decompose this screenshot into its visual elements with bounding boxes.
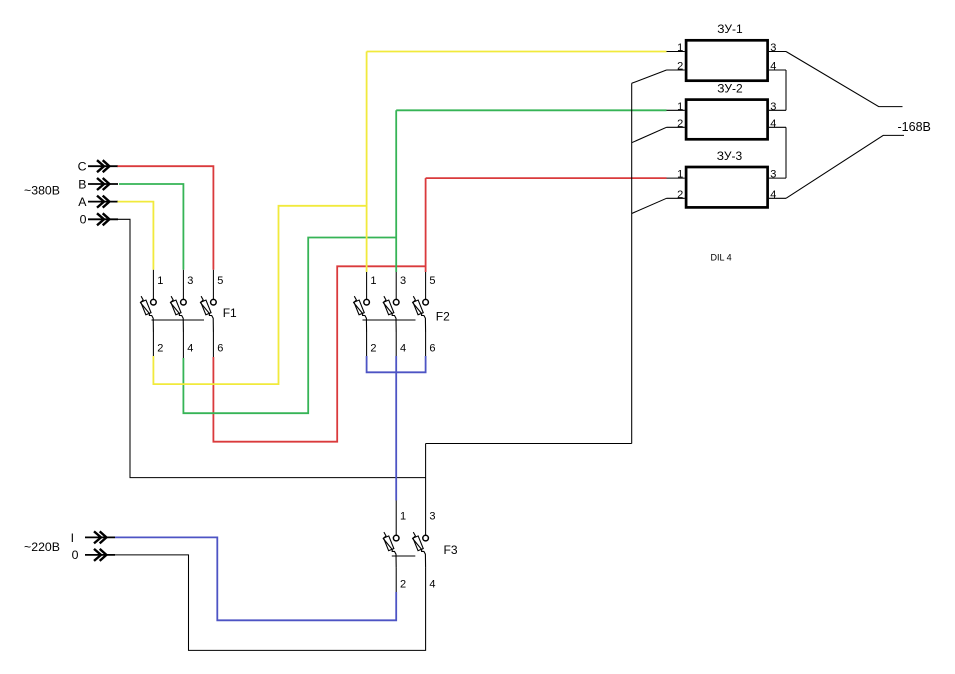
wire phase B green: input B to F1 pin 3: [119, 184, 183, 270]
svg-text:C: C: [78, 160, 87, 174]
charger unit ZU-3: [686, 167, 768, 207]
svg-text:F1: F1: [223, 306, 237, 320]
wire phase C red: input C to F1 pin 5: [118, 166, 214, 270]
wire F2 pin 1 top (black): [366, 272, 368, 299]
wire neutral: vertical riser to ZU pins 2: [631, 83, 633, 443]
connector arrow B: [88, 178, 118, 190]
wire phase A yellow: input A to F1 pin 1: [118, 202, 154, 270]
wire neutral diagonal to ZU-3 pin 2: [632, 198, 667, 213]
svg-text:1: 1: [400, 511, 406, 523]
connector arrow 0: [88, 213, 118, 225]
wire F1 pin 3 top (black): [182, 270, 184, 300]
svg-text:3: 3: [187, 275, 193, 287]
wire F2 pin 6 bottom (black): [425, 332, 427, 356]
connector arrow I: [85, 531, 115, 543]
svg-text:~220В: ~220В: [24, 540, 60, 554]
wire 220V neutral black: input 0 to F3 pin 4: [112, 555, 426, 651]
wire F1 pin 2 bottom (black): [152, 332, 154, 356]
wire stub ZU-1 pin 2: [667, 69, 685, 71]
svg-text:2: 2: [157, 343, 163, 355]
wire series link ZU-1 pin 4 to ZU-2 pin 3: [785, 70, 787, 110]
svg-text:2: 2: [677, 118, 683, 130]
wire stub ZU-3 pin 3: [769, 177, 786, 179]
wire F2 pin 2 bottom (black): [366, 332, 368, 356]
svg-text:1: 1: [677, 42, 683, 54]
wire F1 pin 5 top (black): [212, 270, 214, 300]
svg-text:-168В: -168В: [898, 120, 931, 134]
breaker F1 pole 2 (terminals 3-4): [170, 296, 186, 332]
svg-text:5: 5: [217, 275, 223, 287]
charger unit ZU-1: [686, 40, 768, 80]
breaker F3 pole 2 (terminals 3-4): [413, 532, 429, 568]
wire blue F2 pin 4 down to F3 pin 1: [395, 356, 397, 501]
svg-text:3: 3: [770, 101, 776, 113]
svg-text:2: 2: [677, 189, 683, 201]
svg-text:0: 0: [72, 548, 79, 562]
wire stub ZU-2 pin 4: [769, 126, 786, 128]
svg-text:4: 4: [770, 118, 776, 130]
wire blue jumper F2 pin 2 to pin 6: [367, 356, 426, 372]
wire neutral: vertical to F3 pin 3: [425, 444, 427, 536]
svg-text:4: 4: [400, 343, 406, 355]
svg-text:F2: F2: [436, 310, 450, 324]
connector arrow A: [88, 196, 118, 208]
breaker F2 pole 3 (terminals 5-6): [413, 296, 429, 332]
svg-text:4: 4: [770, 61, 776, 73]
svg-text:~380В: ~380В: [24, 183, 60, 197]
svg-text:2: 2: [677, 61, 683, 73]
svg-text:A: A: [78, 195, 87, 209]
wire phase A yellow vertical at node F2.1: [366, 52, 368, 273]
svg-text:1: 1: [677, 169, 683, 181]
wire stub ZU-2 pin 2: [667, 126, 685, 128]
svg-text:ЗУ-2: ЗУ-2: [717, 82, 743, 96]
wire F2 pin 5 top (black): [425, 272, 427, 299]
F2 tie bar: [363, 319, 416, 321]
wire phase B green: F1 pin 4 to F2 pin 3 and ZU-2 pin 1: [183, 238, 396, 414]
wire phase C red: F1 pin 6 to F2 pin 5 and ZU-3 pin 1: [213, 266, 425, 441]
wire stub ZU-2 pin 3: [769, 109, 786, 111]
breaker F1 pole 3 (terminals 5-6): [200, 296, 216, 332]
wire stub ZU-2 pin 1: [667, 109, 685, 111]
svg-text:3: 3: [770, 42, 776, 54]
breaker F3 pole 1 (terminals 1-2): [383, 532, 399, 568]
wire 220V line I blue: input I to F3 pin 2: [115, 537, 396, 620]
wire output positive: ZU-1 pin 3 to -168V: [786, 52, 903, 107]
wire F3 pin 1 top (black): [395, 501, 397, 536]
F1 tie bar: [152, 319, 205, 321]
wire phase B green to ZU-2 pin 1: [396, 109, 666, 111]
wire F1 pin 1 top (black): [152, 270, 154, 300]
wire stub ZU-3 pin 4: [769, 197, 786, 199]
wire neutral 380V: input 0 to junction under F3: [88, 219, 426, 477]
connector arrow 0 (220V): [85, 549, 115, 561]
wire phase C red to ZU-3 pin 1: [426, 177, 667, 179]
svg-text:1: 1: [677, 101, 683, 113]
wire stub ZU-1 pin 1: [667, 51, 685, 53]
wire output negative: ZU-3 pin 4 to -168V: [786, 135, 904, 198]
wire neutral: horizontal run to ZU column: [426, 443, 632, 445]
svg-text:5: 5: [429, 275, 435, 287]
wire series link ZU-2 pin 4 to ZU-3 pin 3: [785, 127, 787, 178]
wire phase C red vertical at node F2.5: [425, 178, 427, 272]
charger unit ZU-2: [686, 100, 768, 140]
wire phase B green vertical at node F2.3: [395, 110, 397, 272]
svg-text:I: I: [71, 531, 74, 545]
svg-text:6: 6: [429, 343, 435, 355]
connector arrow C: [88, 160, 118, 172]
svg-text:0: 0: [80, 213, 87, 227]
svg-text:3: 3: [770, 169, 776, 181]
wire phase A yellow to ZU-1 pin 1: [367, 51, 667, 53]
svg-text:1: 1: [370, 275, 376, 287]
breaker F2 pole 1 (terminals 1-2): [354, 296, 370, 332]
wire stub ZU-3 pin 2: [667, 197, 685, 199]
svg-text:1: 1: [157, 275, 163, 287]
svg-text:3: 3: [400, 275, 406, 287]
wire F2 pin 4 bottom (black): [395, 332, 397, 356]
svg-text:2: 2: [370, 343, 376, 355]
svg-text:DIL 4: DIL 4: [711, 253, 732, 263]
svg-text:ЗУ-1: ЗУ-1: [717, 22, 743, 36]
svg-text:ЗУ-3: ЗУ-3: [717, 149, 743, 163]
svg-text:3: 3: [429, 511, 435, 523]
wire stub ZU-1 pin 3: [769, 51, 786, 53]
wire neutral diagonal to ZU-1 pin 2: [632, 70, 667, 83]
wire phase A yellow: F1 pin 2 to F2 pin 1 and ZU-1 pin 1: [153, 206, 366, 384]
wire F2 pin 3 top (black): [395, 272, 397, 299]
svg-text:F3: F3: [444, 543, 458, 557]
svg-text:2: 2: [400, 578, 406, 590]
wire F1 pin 6 bottom (black): [212, 332, 214, 357]
breaker F2 pole 2 (terminals 3-4): [383, 296, 399, 332]
svg-text:B: B: [78, 177, 86, 191]
svg-text:4: 4: [770, 189, 776, 201]
wire F1 pin 4 bottom (black): [182, 332, 184, 358]
wire neutral diagonal to ZU-2 pin 2: [632, 127, 667, 142]
F3 tie bar: [392, 555, 416, 557]
svg-text:4: 4: [187, 343, 193, 355]
wire stub ZU-1 pin 4: [769, 69, 786, 71]
svg-text:4: 4: [429, 578, 435, 590]
wire stub ZU-3 pin 1: [667, 177, 685, 179]
breaker F1 pole 1 (terminals 1-2): [140, 296, 156, 332]
svg-text:6: 6: [217, 343, 223, 355]
wire F3 pin 2 bottom (black): [395, 568, 397, 592]
